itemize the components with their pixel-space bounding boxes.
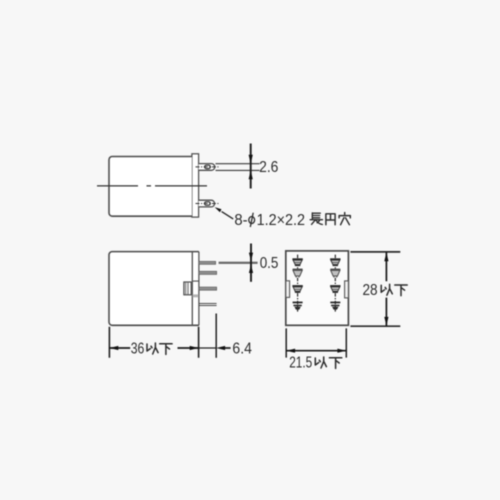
pin terminal R4 bbox=[330, 302, 340, 310]
latch detail (front view) bbox=[184, 282, 191, 295]
right pin column center line bbox=[334, 255, 336, 312]
pin terminal R2 bbox=[330, 269, 340, 278]
left pin column center line bbox=[297, 255, 299, 312]
dimension text 36以下 bbox=[131, 341, 172, 358]
dimension 36 extension lines bbox=[109, 327, 198, 358]
svg-text:21.5: 21.5 bbox=[289, 355, 312, 372]
dimension text 6.4 bbox=[232, 341, 252, 358]
svg-text:8-: 8- bbox=[234, 212, 247, 229]
dimension 2.6 line with arrows bbox=[249, 144, 253, 189]
svg-text:0.5: 0.5 bbox=[260, 255, 279, 272]
pin 3 (front view) bbox=[199, 287, 217, 290]
dimension text 28以下 bbox=[363, 282, 408, 299]
pin terminal R3 bbox=[330, 285, 340, 293]
lower pin (side view oblong lug) bbox=[196, 200, 219, 207]
dimension text 0.5 bbox=[260, 255, 279, 272]
dimension 21.5 line with arrows bbox=[286, 349, 346, 353]
leader arrow to lower pin bbox=[215, 207, 234, 219]
right notch bbox=[345, 281, 349, 298]
pin terminal R1 bbox=[330, 258, 340, 266]
svg-text:6.4: 6.4 bbox=[232, 341, 252, 358]
dimension 6.4 line with outside arrow bbox=[199, 346, 231, 350]
label 8-phi1.2x2.2 oblong hole bbox=[234, 212, 350, 229]
dimension 6.4 extension line bbox=[215, 314, 217, 358]
dimension text 21.5以下 bbox=[289, 355, 342, 372]
dimension 36 line with arrows bbox=[109, 346, 198, 350]
svg-text:2.6: 2.6 bbox=[259, 159, 278, 176]
base strip marks (front view) bbox=[192, 281, 199, 297]
pin 2 (front view) bbox=[199, 271, 217, 274]
svg-text:28: 28 bbox=[363, 282, 378, 299]
dimension 28 line with arrows bbox=[384, 252, 388, 326]
center line (side view) bbox=[97, 185, 207, 187]
dimension 28 extension lines bbox=[350, 252, 400, 326]
pin 4 (front view, edge-on) bbox=[199, 304, 217, 306]
svg-text:36: 36 bbox=[131, 341, 145, 358]
dimension 21.5 extension lines bbox=[286, 328, 346, 357]
left notch bbox=[286, 281, 290, 298]
dimension 0.5 line with arrows bbox=[249, 244, 253, 282]
svg-text:1.2×2.2: 1.2×2.2 bbox=[257, 212, 305, 229]
pin terminal L2 bbox=[293, 269, 303, 278]
bottom view outline bbox=[286, 251, 349, 325]
pin terminal L3 bbox=[292, 285, 302, 293]
relay body (side view) bbox=[109, 157, 192, 217]
pin 1 (front view, with extension) bbox=[199, 261, 258, 264]
dimension text 2.6 bbox=[259, 159, 278, 176]
relay body (front view) bbox=[109, 252, 199, 326]
pin terminal L4 bbox=[293, 302, 303, 310]
relay base strip (side view) bbox=[192, 154, 199, 217]
upper pin (side view oblong lug) bbox=[196, 164, 219, 171]
dimension 2.6 extension lines bbox=[216, 164, 260, 171]
pin terminal L1 bbox=[292, 258, 302, 266]
